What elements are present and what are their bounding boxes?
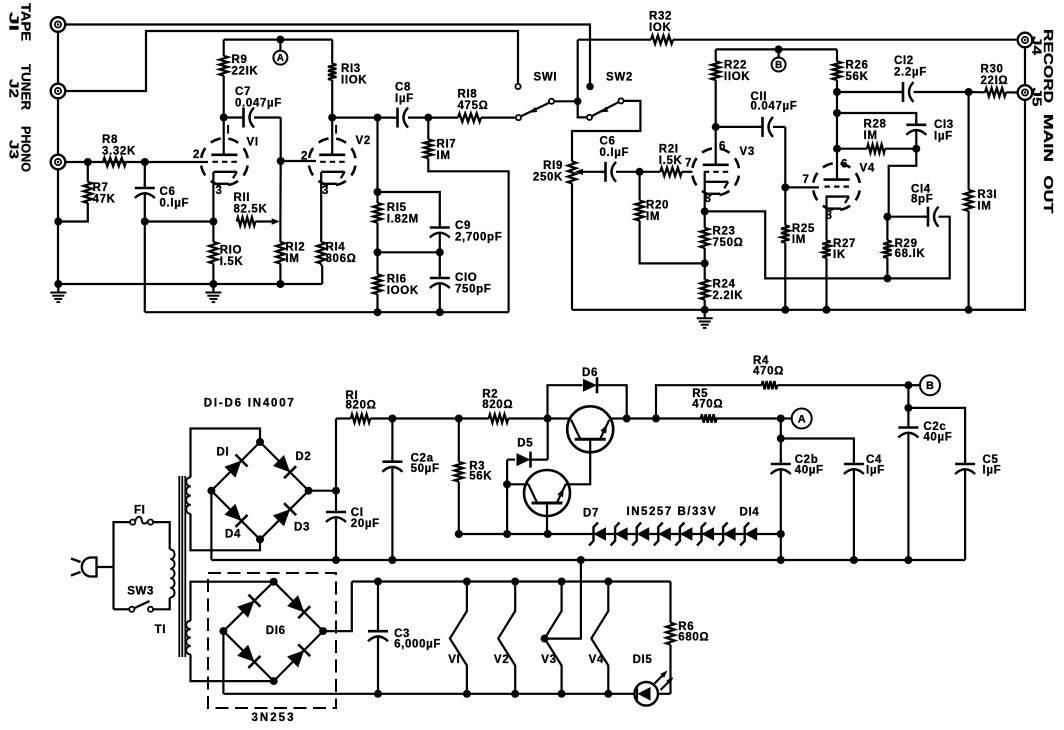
svg-text:RI6: RI6 [387, 273, 407, 285]
capacitor C8 [393, 108, 429, 128]
svg-text:J4: J4 [1030, 36, 1045, 56]
label D5 [517, 438, 533, 450]
wire D5 cathode riser [547, 419, 549, 460]
node switch pole junction [574, 98, 582, 106]
svg-text:C7: C7 [235, 86, 251, 98]
wire Q1 collector lead [548, 417, 572, 419]
node ground rail R10 [209, 280, 217, 288]
svg-text:FI: FI [134, 505, 146, 517]
svg-text:B: B [775, 60, 782, 71]
svg-text:R22: R22 [724, 59, 747, 71]
wire bridge2 positive [323, 582, 352, 632]
node V4 grid junction [781, 183, 789, 191]
label R19 250K [533, 160, 563, 183]
svg-text:IµF: IµF [395, 93, 414, 105]
capacitor C4 [844, 459, 864, 560]
resistor R27 [822, 241, 830, 310]
svg-text:I.82M: I.82M [387, 214, 419, 226]
wire secondary2 bottom to bridge [191, 655, 274, 682]
label C5 1uF [983, 454, 1002, 477]
wire A stub [279, 40, 281, 51]
resistor R30 [969, 88, 1018, 96]
node SW1 tuner contact [515, 84, 520, 89]
svg-text:TI: TI [155, 624, 167, 636]
svg-text:20µF: 20µF [351, 518, 380, 530]
svg-text:3.32K: 3.32K [102, 146, 136, 158]
pin 1 V2 [335, 125, 339, 137]
svg-text:0.IµF: 0.IµF [600, 147, 630, 159]
svg-text:8pF: 8pF [911, 193, 933, 205]
node C4 bottom [850, 556, 858, 564]
node bridge2 top [270, 578, 278, 586]
svg-text:DI4: DI4 [740, 507, 760, 519]
capacitor C14 [887, 207, 949, 279]
label R25 1M [792, 223, 815, 246]
node C2b bottom [777, 556, 785, 564]
capacitor C13 [906, 120, 926, 149]
node R10 top junction [209, 218, 217, 226]
svg-text:806Ω: 806Ω [326, 253, 357, 265]
resistor R8 [103, 158, 126, 166]
node bridge1 right [305, 487, 313, 495]
node Q2 base junction [544, 530, 552, 538]
capacitor C3 [368, 582, 388, 694]
wire main psu rail [211, 559, 965, 561]
svg-text:D6: D6 [582, 367, 598, 379]
svg-text:R30: R30 [981, 63, 1004, 75]
label D3 [294, 521, 310, 533]
svg-text:CI3: CI3 [934, 119, 954, 131]
wire C4 branch [781, 439, 854, 462]
wire tape line J1 to SW2 [65, 25, 590, 85]
wire Q1 emitter lead [609, 417, 627, 419]
wire tuner line J2 to SW1 [65, 31, 518, 91]
node R15 branch junction [374, 114, 382, 122]
node bridge2 left [219, 627, 227, 635]
label C2a 50uF [411, 453, 440, 476]
node C2c junction [904, 404, 912, 412]
label R20 1M [646, 199, 669, 223]
node B output junction [904, 381, 912, 389]
svg-text:3: 3 [216, 185, 223, 197]
svg-text:750pF: 750pF [455, 284, 492, 296]
inductor T1 secondary 1 [186, 477, 191, 514]
node R31 top junction [965, 88, 973, 96]
wire pole riser [577, 40, 579, 102]
svg-text:6: 6 [841, 159, 848, 171]
label C9 2700pF [455, 220, 502, 244]
svg-text:IµF: IµF [934, 131, 953, 143]
wire primary loop left [114, 522, 131, 609]
label D1 [217, 447, 230, 459]
node heater V2 bottom [511, 690, 519, 698]
svg-text:RI3: RI3 [341, 63, 361, 75]
label R10 1.5K [220, 244, 244, 268]
node R20 junction [636, 168, 644, 176]
wire V2 grid lead [281, 160, 316, 162]
svg-text:2.2IK: 2.2IK [713, 290, 744, 302]
svg-text:C9: C9 [455, 220, 471, 232]
node R25 bottom [781, 306, 789, 314]
svg-text:CI2: CI2 [894, 55, 914, 67]
node heater ct rail [577, 556, 585, 564]
svg-text:7: 7 [685, 157, 692, 169]
node R3 bottom junction [455, 530, 463, 538]
label TUNER [19, 64, 34, 111]
inductor T1 primary [170, 550, 174, 598]
capacitor C1 [326, 491, 346, 560]
wire SW2 pivot stub [578, 101, 587, 117]
diode D16 upper-left [237, 595, 260, 618]
tube V4 [813, 163, 860, 210]
wire C2b to rail [780, 534, 782, 560]
wire C7 to V2 grid [280, 118, 282, 162]
label D4 [225, 528, 241, 540]
svg-text:R28: R28 [864, 118, 887, 130]
label C1 20uF [351, 507, 380, 530]
resistor R5 [701, 414, 717, 422]
svg-text:2,700pF: 2,700pF [455, 232, 502, 244]
svg-text:750Ω: 750Ω [713, 237, 744, 249]
wire SW3 to primary bottom [114, 608, 130, 610]
svg-text:0.IµF: 0.IµF [160, 198, 190, 210]
node J5 output jack MAIN [1018, 85, 1033, 100]
resistor R18 [428, 113, 516, 121]
wire R11 arrow to V2 grid node [272, 218, 280, 225]
label V3 [740, 146, 755, 158]
wire Q2 emitter to Q1 base [566, 439, 590, 484]
svg-text:DI: DI [217, 447, 230, 459]
label PHONO [19, 126, 34, 172]
wire C12 to C13 [836, 92, 838, 113]
resistor R12 [276, 161, 284, 284]
svg-text:J5: J5 [1030, 88, 1045, 107]
wire raw row [392, 417, 458, 419]
svg-text:IIOK: IIOK [341, 75, 367, 87]
svg-text:820Ω: 820Ω [346, 400, 377, 412]
ground symbol V3 [697, 310, 713, 328]
svg-text:D5: D5 [517, 438, 533, 450]
wire feedback bottom rail [145, 311, 509, 313]
svg-text:DI6: DI6 [266, 625, 286, 637]
wire bridge1 edges [211, 442, 308, 539]
pin 3 V1 [216, 185, 223, 197]
label D2 [295, 451, 311, 463]
node heater V4 bottom [604, 690, 612, 698]
wire C13 top row [837, 113, 916, 124]
svg-text:MAIN: MAIN [1041, 114, 1056, 162]
label D6 [582, 367, 598, 379]
label R9 221K [232, 54, 259, 78]
svg-text:56K: 56K [469, 471, 492, 483]
node C3 top [374, 578, 382, 586]
svg-text:RI5: RI5 [387, 202, 407, 214]
label SW2 [606, 72, 633, 84]
node SW2 tape contact [586, 83, 594, 91]
label heater V4 [589, 654, 604, 666]
node R27 bottom [823, 306, 831, 314]
svg-text:IIOK: IIOK [724, 71, 750, 83]
label V4 [860, 163, 875, 175]
wire SW3 right to primary [153, 598, 170, 610]
label J5 [1030, 88, 1045, 107]
label C14 8pF [911, 183, 933, 205]
resistor R29 [883, 217, 891, 279]
label D14 [740, 507, 760, 519]
node R31 bottom [965, 306, 973, 314]
wire B drop [907, 385, 909, 408]
svg-text:0.047µF: 0.047µF [751, 101, 798, 113]
svg-text:250K: 250K [533, 171, 563, 183]
label R6 680Ohm [678, 621, 709, 644]
transistor Q1 [567, 406, 613, 452]
switch SW2 pivot contact [587, 115, 592, 120]
wire V1 plate lead [223, 118, 225, 155]
node R7 bottom junction [54, 218, 62, 226]
wire bridge1 negative [210, 491, 212, 560]
svg-text:475Ω: 475Ω [458, 100, 489, 112]
node R17 junction [424, 114, 432, 122]
wire heater center tap [545, 560, 581, 639]
label R5 470Ohm [692, 388, 723, 410]
svg-text:6: 6 [719, 141, 726, 153]
svg-text:R23: R23 [713, 225, 736, 237]
resistor R10 [209, 222, 217, 285]
wire B stub [777, 49, 779, 57]
svg-text:6,000µF: 6,000µF [394, 639, 441, 651]
label heater V3 [541, 654, 556, 666]
switch SW1 phono contact [516, 115, 521, 120]
wire D5 anode drop [506, 460, 508, 534]
svg-text:47K: 47K [93, 194, 116, 206]
label R23 750Ohm [713, 225, 744, 249]
pin 6 V3 [719, 141, 726, 153]
node C2b junction [777, 435, 785, 443]
svg-text:IM: IM [437, 150, 451, 162]
svg-text:2: 2 [193, 149, 200, 161]
svg-text:A: A [798, 414, 806, 426]
node bridge2 right [319, 627, 327, 635]
svg-text:RI7: RI7 [437, 138, 457, 150]
label IN5257B/33V [627, 506, 716, 518]
led D15 [634, 671, 673, 706]
svg-text:0.047µF: 0.047µF [235, 98, 282, 110]
resistor R14 [317, 242, 325, 266]
node C2c bottom [904, 556, 912, 564]
pin 7 V3 [685, 157, 692, 169]
node R15 bottom junction [374, 248, 382, 256]
diode D16 lower-left [237, 645, 260, 668]
resistor R11 [237, 217, 273, 225]
svg-text:RI2: RI2 [285, 241, 305, 253]
label C6 0.1uF [160, 186, 190, 210]
switch SW2 output contact [618, 98, 623, 103]
label R30 221Ohm [981, 63, 1009, 87]
label C2c 40uF [923, 421, 952, 444]
label D7 [583, 508, 599, 520]
label SW1 [534, 72, 558, 84]
svg-text:D4: D4 [225, 528, 241, 540]
capacitor C2b [771, 439, 791, 535]
svg-text:IM: IM [977, 201, 991, 213]
svg-text:RI4: RI4 [326, 241, 346, 253]
wire jack bus J1-J2 [57, 32, 59, 85]
node R3 junction [455, 415, 463, 423]
node R4 branch junction [652, 415, 660, 423]
wire R15 branch [376, 118, 378, 192]
label 3N253 [252, 712, 294, 724]
svg-text:VI: VI [448, 654, 460, 666]
wire R28 to C14 node [889, 149, 917, 217]
node Q1 collector junction [544, 415, 552, 423]
wire V4 cathode lead [825, 197, 827, 241]
label D15 [633, 654, 653, 666]
transformer T1 core [179, 476, 185, 657]
svg-text:22IΩ: 22IΩ [981, 75, 1009, 87]
svg-text:J2: J2 [7, 79, 22, 98]
wire B+ rail [716, 48, 837, 50]
label R4 470Ohm [753, 355, 784, 377]
ac plug [71, 558, 97, 577]
svg-text:RI9: RI9 [543, 160, 563, 172]
wire plate supply row A [224, 38, 333, 40]
node R28 left junction [833, 145, 841, 153]
node V2 plate junction [328, 114, 336, 122]
svg-text:DI5: DI5 [633, 654, 653, 666]
label heater V2 [494, 654, 509, 666]
node R28 right junction [912, 145, 920, 153]
label R18 475Ohm [458, 88, 489, 112]
wire right ground rail [572, 309, 1025, 311]
wire C11 to V4 grid [784, 127, 786, 187]
label D16 [266, 625, 286, 637]
svg-text:OUT: OUT [1041, 176, 1056, 214]
svg-text:R7: R7 [93, 182, 109, 194]
capacitor C6b [601, 162, 640, 182]
wire C13 to R28 row [836, 113, 838, 149]
wire bridge2 negative [222, 631, 224, 694]
diode D1 [224, 455, 247, 478]
label T1 [155, 624, 167, 636]
resistor R28 [837, 145, 916, 153]
wire Q2 base lead [546, 503, 548, 534]
resistor R1 [336, 414, 392, 422]
svg-text:R24: R24 [713, 278, 736, 290]
label J2 [7, 79, 22, 98]
wire heater top bus [352, 580, 671, 582]
wire plate row to C8 [332, 116, 397, 118]
wire mid row [378, 251, 440, 253]
capacitor C11 [716, 117, 786, 137]
transistor Q2 [524, 470, 570, 516]
svg-text:C6: C6 [600, 135, 616, 147]
svg-text:I.5K: I.5K [659, 155, 683, 167]
node bridge1 left [207, 487, 215, 495]
node ground rail R12 [276, 280, 284, 288]
label R26 56K [846, 59, 869, 83]
resistor R23 [701, 211, 709, 263]
svg-text:SWI: SWI [534, 72, 558, 84]
label V2 [356, 135, 371, 147]
pin 1 V1 [227, 125, 231, 137]
svg-text:IµF: IµF [866, 465, 885, 477]
node V2 grid junction [277, 157, 285, 165]
node C6 junction [141, 158, 149, 166]
wire cathode feedback path [705, 211, 888, 278]
node heater V3 bottom [558, 690, 566, 698]
label R13 110K [341, 63, 367, 87]
label C6b 0.1uF [600, 135, 630, 159]
svg-text:R20: R20 [646, 199, 669, 211]
label R11 82.5K [234, 192, 268, 216]
label R31 1M [977, 189, 997, 213]
resistor R22 [712, 49, 720, 127]
node B junction [775, 45, 783, 53]
label TAPE [19, 3, 34, 41]
node B [772, 58, 786, 72]
node A [273, 51, 287, 65]
label R17 1M [437, 138, 457, 162]
node heater V1 top [463, 578, 471, 586]
node J4 output jack RECORD [1018, 33, 1033, 48]
node C13 junction [833, 109, 841, 117]
tube V2 [309, 138, 356, 185]
node C3 bottom [374, 690, 382, 698]
label J4 [1030, 36, 1045, 56]
capacitor C6 phono [135, 162, 155, 222]
svg-text:VI: VI [247, 137, 259, 149]
svg-text:40µF: 40µF [923, 432, 952, 444]
wire R14 bottom [321, 266, 323, 285]
node C1 junction [332, 487, 340, 495]
capacitor C2c [898, 408, 918, 560]
diode D2 [273, 455, 296, 478]
diode D16 upper-right [287, 595, 310, 618]
pin 2 V1 [193, 149, 200, 161]
pin 2 V2 [301, 151, 308, 163]
svg-text:V4: V4 [589, 654, 604, 666]
pin 3 V2 [322, 185, 329, 197]
heater V1 [450, 582, 467, 694]
heater V3 [545, 582, 562, 694]
label C8 1uF [395, 81, 414, 105]
node D5 anode junction [503, 530, 511, 538]
label RECORD [1041, 29, 1056, 103]
svg-text:680Ω: 680Ω [678, 632, 709, 644]
label C10 750pF [455, 272, 492, 296]
svg-text:V2: V2 [356, 135, 371, 147]
svg-text:C6: C6 [160, 186, 176, 198]
svg-text:I: I [227, 125, 231, 137]
wire R19 wiper [575, 169, 606, 176]
svg-text:R26: R26 [846, 59, 869, 71]
label R29 68.1K [895, 238, 926, 260]
inductor T1 secondary 2 [186, 621, 191, 655]
node zener right junction [777, 530, 785, 538]
node R24 ground junction [701, 306, 709, 314]
resistor R13 [328, 40, 336, 118]
svg-text:22IK: 22IK [232, 66, 259, 78]
resistor R24 [701, 263, 709, 309]
node C14 junction [883, 213, 891, 221]
switch SW1 blade [521, 103, 550, 117]
resistor R17 [424, 118, 509, 313]
wire V4 grid lead [785, 186, 819, 188]
label R12 1M [285, 241, 305, 265]
svg-text:R2I: R2I [659, 143, 679, 155]
node C12 junction [833, 88, 841, 96]
node R16 bottom [374, 308, 382, 316]
